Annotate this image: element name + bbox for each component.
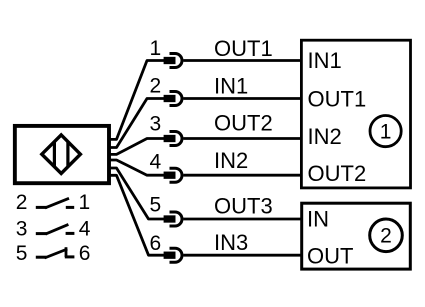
connector pin 2 plug xyxy=(164,92,182,106)
module box 2 xyxy=(302,203,411,269)
svg-text:IN2: IN2 xyxy=(214,148,248,173)
connector pin 6 plug xyxy=(164,248,182,262)
wire 5 xyxy=(109,168,165,219)
svg-text:5: 5 xyxy=(16,242,28,265)
wire IN3 to module xyxy=(184,254,302,257)
svg-text:IN3: IN3 xyxy=(214,230,248,255)
sensor box S1 xyxy=(15,126,109,183)
connector pin 3 plug xyxy=(164,132,182,146)
svg-text:6: 6 xyxy=(150,232,162,255)
svg-text:OUT1: OUT1 xyxy=(308,86,367,111)
wire OUT1 to module xyxy=(184,59,302,62)
wire 2 xyxy=(109,99,165,148)
svg-text:1: 1 xyxy=(380,120,392,143)
connector pin 1 plug xyxy=(164,54,182,68)
wire 6 xyxy=(109,175,165,255)
wire IN1 to module xyxy=(184,97,302,100)
wire OUT2 to module xyxy=(184,137,302,140)
svg-text:OUT: OUT xyxy=(307,244,353,269)
wire 3 xyxy=(109,139,165,155)
svg-text:IN2: IN2 xyxy=(308,124,342,149)
svg-text:IN1: IN1 xyxy=(308,48,342,73)
svg-text:5: 5 xyxy=(150,194,162,217)
circled 1 xyxy=(370,116,401,147)
svg-text:4: 4 xyxy=(150,151,162,174)
connector pin 4 plug xyxy=(164,168,182,182)
svg-text:OUT2: OUT2 xyxy=(308,161,367,186)
svg-text:2: 2 xyxy=(380,225,392,248)
svg-text:2: 2 xyxy=(150,75,162,98)
wire OUT3 to module xyxy=(184,218,302,221)
svg-text:4: 4 xyxy=(79,217,91,240)
svg-text:2: 2 xyxy=(16,191,28,214)
svg-text:OUT1: OUT1 xyxy=(214,36,273,61)
svg-text:1: 1 xyxy=(150,37,162,60)
svg-text:3: 3 xyxy=(16,217,28,240)
legend row 3: contact 5-6 xyxy=(16,242,91,265)
svg-text:1: 1 xyxy=(79,191,91,214)
svg-text:IN1: IN1 xyxy=(214,73,248,98)
module box 1 xyxy=(301,40,410,188)
svg-text:IN: IN xyxy=(307,206,329,231)
svg-text:3: 3 xyxy=(150,113,162,136)
svg-text:OUT2: OUT2 xyxy=(214,111,273,136)
svg-text:6: 6 xyxy=(79,242,91,265)
wire 1 xyxy=(109,61,165,140)
wire 4 xyxy=(109,160,165,175)
legend row 1: contact 2-1 xyxy=(16,191,90,214)
sensor symbol diamond xyxy=(42,135,81,174)
svg-text:OUT3: OUT3 xyxy=(214,194,273,219)
connector pin 5 plug xyxy=(164,212,182,226)
wire IN2 to module xyxy=(184,174,302,177)
circled 2 xyxy=(370,219,403,252)
legend row 2: contact 3-4 xyxy=(16,217,91,240)
